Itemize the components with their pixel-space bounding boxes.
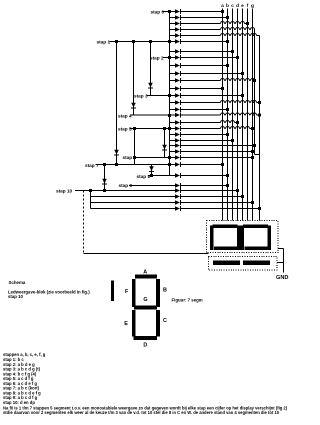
svg-text:d: d bbox=[236, 3, 239, 9]
svg-text:G: G bbox=[143, 297, 147, 303]
svg-text:stap 8: stap 8 bbox=[137, 174, 151, 179]
svg-text:stap 4: stap 4 bbox=[118, 114, 132, 119]
svg-text:stdie daarvan voor 2 segmenten: stdie daarvan voor 2 segmenten elk weer … bbox=[3, 410, 280, 415]
svg-text:D: D bbox=[143, 342, 147, 348]
svg-text:C: C bbox=[163, 318, 167, 324]
svg-text:A: A bbox=[143, 270, 147, 276]
svg-text:Figuur: 7 segm: Figuur: 7 segm bbox=[172, 298, 203, 303]
svg-text:c: c bbox=[231, 4, 234, 9]
svg-text:stap 6: stap 6 bbox=[123, 155, 137, 160]
svg-text:b: b bbox=[226, 3, 229, 9]
svg-text:Schema: Schema bbox=[9, 280, 26, 285]
svg-text:stap 1: stap 1 bbox=[97, 39, 111, 44]
svg-text:stap 2: stap 2 bbox=[150, 56, 164, 61]
svg-text:E: E bbox=[124, 321, 128, 327]
svg-text:a: a bbox=[221, 4, 224, 9]
svg-text:g: g bbox=[251, 4, 254, 9]
svg-text:B: B bbox=[163, 288, 167, 294]
svg-text:stap 10: d en dp: stap 10: d en dp bbox=[3, 400, 35, 405]
svg-text:stap 10: stap 10 bbox=[56, 189, 73, 194]
svg-text:stap 0: stap 0 bbox=[151, 9, 165, 14]
svg-text:stap 5: stap 5 bbox=[118, 127, 132, 132]
svg-text:GND: GND bbox=[276, 275, 288, 281]
svg-text:stap 7: stap 7 bbox=[85, 163, 99, 168]
svg-text:e: e bbox=[241, 4, 244, 9]
svg-text:stap 3: stap 3 bbox=[134, 94, 148, 99]
svg-text:stap 9: stap 9 bbox=[119, 183, 133, 188]
svg-text:stap 10: stap 10 bbox=[8, 294, 24, 299]
